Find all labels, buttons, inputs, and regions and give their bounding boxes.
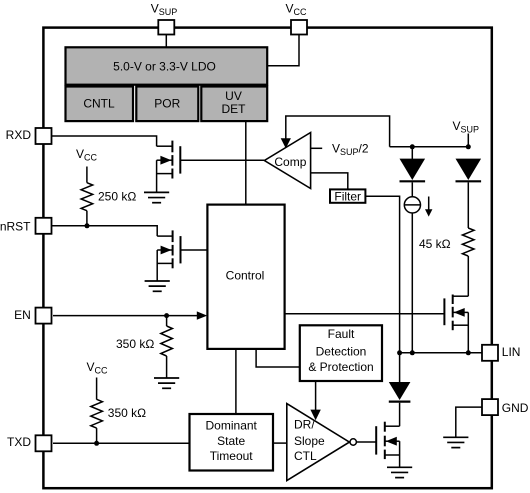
wire M3 source to LIN rail [467, 312, 469, 352]
wire R3 to TXD net [96, 428, 98, 443]
wire R4 to M3 drain [467, 256, 469, 296]
wire Filter to LIN net [365, 196, 399, 382]
block CNTL [66, 87, 134, 122]
svg-text:LIN: LIN [502, 345, 521, 359]
ground G4 (M4 source) [387, 467, 412, 477]
block Dominant State Timeout [190, 414, 274, 471]
block Control [207, 205, 284, 349]
wire I1 to LIN rail [411, 213, 413, 353]
wire VSUP label to rail [467, 134, 469, 147]
wire VCC to resistor R3 [96, 378, 98, 400]
wire VCC to resistor R1 [86, 167, 88, 183]
wire Comp to Filter [311, 173, 348, 190]
wire EN to Control [53, 315, 198, 317]
diode D2 [456, 180, 482, 182]
svg-text:CNTL: CNTL [83, 97, 115, 111]
wire LIN sense to Comp input (arrow) [286, 116, 390, 147]
junction rail/D2 [466, 144, 471, 149]
wire bubble to M4 gate [356, 441, 376, 443]
junction TXD/R3 [94, 441, 99, 446]
transistor M3 (LIN pull-up switch) [444, 295, 452, 331]
wire VSUP rail [390, 146, 469, 148]
svg-text:Dominant: Dominant [206, 419, 258, 433]
wire M1 source to ground [156, 160, 158, 192]
block POR [136, 87, 198, 122]
wire nRST to M2 drain [52, 226, 157, 236]
transistor M4 (LIN driver) [376, 422, 385, 459]
svg-text:45 kΩ: 45 kΩ [419, 237, 451, 251]
buffer DR/Slope CTL [287, 404, 350, 481]
block Filter [330, 189, 365, 202]
current direction arrow [428, 197, 430, 211]
pin VSUP (top) [158, 20, 174, 35]
pin VCC (top) [291, 20, 307, 35]
svg-text:nRST: nRST [0, 220, 31, 234]
block UV DET [201, 87, 267, 122]
svg-text:CTL: CTL [294, 449, 317, 463]
svg-text:Fault: Fault [328, 327, 355, 341]
transistor M1 (RXD pulldown) [172, 141, 180, 179]
svg-text:5.0-V or 3.3-V LDO: 5.0-V or 3.3-V LDO [113, 59, 216, 73]
wire Control to Fault block [256, 349, 300, 367]
resistor R3 350 kOhm [91, 399, 103, 428]
svg-text:350 kΩ: 350 kΩ [116, 337, 154, 351]
transistor M2 (nRST pulldown) [173, 230, 181, 268]
svg-text:Slope: Slope [294, 434, 325, 448]
wire TXD to Dominant State Timeout [53, 442, 190, 444]
svg-text:RXD: RXD [6, 128, 32, 142]
svg-text:POR: POR [154, 97, 180, 111]
pin LIN [482, 345, 498, 361]
junction EN/R2 [164, 313, 169, 318]
wire LIN rail [400, 352, 482, 354]
node VSUP/2 reference [311, 147, 323, 149]
junction rail/D1 [410, 144, 415, 149]
svg-text:Detection: Detection [316, 345, 367, 359]
junction LIN/M3 [466, 350, 471, 355]
svg-text:GND: GND [502, 401, 529, 415]
svg-text:Comp: Comp [274, 155, 306, 169]
ground G3 (R2) [154, 378, 179, 388]
svg-text:& Protection: & Protection [308, 360, 373, 374]
wire VSUP pin to LDO [165, 35, 167, 48]
resistor R4 45 kOhm [462, 228, 474, 256]
svg-text:TXD: TXD [7, 435, 31, 449]
wire Fault block to DR/Slope CTL (arrow) [315, 381, 317, 411]
svg-text:DR/: DR/ [294, 418, 315, 432]
current source I1 [404, 197, 420, 213]
wire M2 gate to Control [181, 249, 208, 251]
pin nRST [36, 218, 52, 234]
ground G5 (GND pin) [443, 437, 468, 447]
regulator block LDO [66, 47, 268, 84]
wire R1 to nRST net [86, 211, 88, 226]
resistor R1 250 kOhm [81, 183, 93, 211]
svg-text:250 kΩ: 250 kΩ [98, 189, 136, 203]
svg-text:Filter: Filter [334, 189, 361, 203]
svg-text:350 kΩ: 350 kΩ [108, 406, 146, 420]
wire Control to M3 gate [285, 313, 445, 315]
wire M4 source to ground [399, 441, 401, 467]
resistor R2 350 kOhm [161, 326, 173, 356]
junction nRST/R1 [85, 223, 90, 228]
ground G1 (M1 source) [144, 192, 169, 202]
arrow EN into Control [197, 311, 207, 319]
wire Dominant State Timeout to DR/Slope CTL [273, 442, 287, 444]
svg-text:Control: Control [226, 268, 265, 282]
svg-text:Timeout: Timeout [210, 449, 254, 463]
svg-text:State: State [217, 434, 245, 448]
pin RXD [36, 128, 52, 144]
ground G2 (M2 source) [145, 281, 170, 291]
wire Control to Dominant State Timeout [235, 349, 237, 414]
wire RXD to M1 drain [52, 136, 157, 146]
pin EN [36, 308, 52, 324]
svg-text:EN: EN [14, 308, 31, 322]
diode D1 [411, 147, 413, 159]
pin TXD [36, 435, 52, 451]
wire GND pin to ground [456, 407, 482, 437]
pin GND [482, 399, 498, 415]
wire M1 gate to Comp output [180, 159, 264, 161]
wire D2 to resistor R4 [467, 182, 469, 228]
svg-text:DET: DET [222, 102, 247, 116]
outer IC boundary [43, 28, 491, 489]
wire R2 to ground [166, 356, 168, 378]
wire M2 source to ground [156, 250, 158, 281]
junction LIN/I1 [410, 350, 415, 355]
wire VCC pin to LDO right edge [268, 35, 299, 66]
comparator Comp [264, 133, 310, 189]
wire EN to resistor R2 [166, 316, 168, 326]
block Fault Detection & Protection [300, 325, 382, 381]
junction LIN/D3 [397, 350, 402, 355]
inverter bubble [350, 439, 356, 445]
wire UV DET to Control top [245, 121, 247, 205]
diode D3 [389, 382, 411, 400]
